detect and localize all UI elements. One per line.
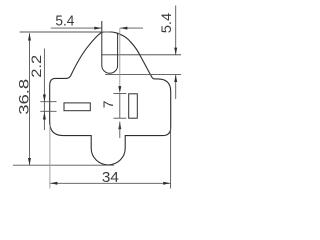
- dim 7: down arrowhead: [118, 86, 121, 93]
- dim 2.2: down arrowhead: [43, 95, 46, 102]
- dim 5.4 top: right dimension line: [120, 27, 143, 29]
- dim 7: up arrowhead: [118, 122, 121, 130]
- dim 34: left extension line: [49, 125, 51, 189]
- dim 5.4 right: lower dimension line: [175, 75, 177, 99]
- dim 34: left arrowhead: [50, 182, 57, 185]
- dim 7: lower tail line: [119, 122, 121, 139]
- dim 2.2: dimension line: [43, 49, 45, 131]
- right slot (vertical): [129, 94, 138, 118]
- svg-text:34: 34: [102, 169, 119, 186]
- extension line: keyhole slot top level, to dim 5.4 right: [101, 54, 181, 56]
- extension line: dome top tangent (top of dim 36.8): [20, 31, 110, 33]
- dim 2.2: bottom extension tick: [40, 110, 56, 112]
- svg-text:5.4: 5.4: [55, 12, 74, 29]
- dim 7: bottom extension tick: [113, 117, 126, 119]
- dim 7: dimension line between ticks: [119, 94, 121, 119]
- dim 36.8: dimension line: [29, 33, 31, 165]
- dim 2.2: up arrowhead: [43, 112, 46, 120]
- dim 34: right arrowhead: [163, 182, 170, 185]
- svg-text:5.4: 5.4: [158, 13, 174, 34]
- extension line: part bottom tangent (bottom of dim 36.8): [13, 164, 114, 166]
- dim 2.2: top extension tick: [40, 101, 56, 103]
- keyhole slot left edge (also extension line for dim 5.4 top): [101, 21, 103, 55]
- extension line: keyhole slot bottom level, to dim 5.4 right: [105, 74, 181, 76]
- dim 5.4 top: left dimension line: [51, 27, 102, 29]
- dim 5.4 right: upper dimension line: [175, 6, 177, 55]
- dim 7: top extension tick: [113, 93, 126, 95]
- dim 5.4 top: left-pointing arrowhead: [120, 27, 127, 30]
- part outline (domed cross-shaped body): [50, 32, 171, 165]
- keyhole slot U-bottom: [102, 55, 118, 73]
- dim 34: dimension line: [50, 182, 170, 184]
- dim 36.8: down arrowhead: [28, 158, 31, 165]
- svg-text:7: 7: [100, 100, 116, 108]
- dim 5.4 right: up arrowhead: [174, 75, 177, 82]
- dim 36.8: up arrowhead: [28, 33, 31, 40]
- keyhole slot right edge: [117, 33, 119, 55]
- dim 5.4 top: right-pointing arrowhead: [94, 27, 101, 30]
- dim 34: right extension line: [170, 128, 172, 189]
- svg-text:2.2: 2.2: [28, 55, 44, 78]
- svg-text:36.8: 36.8: [16, 79, 32, 115]
- dim 7: upper leader line (shared with dim 5.4 top extension): [119, 28, 121, 87]
- left slot (horizontal): [64, 103, 90, 111]
- dim 5.4 right: down arrowhead: [174, 48, 177, 55]
